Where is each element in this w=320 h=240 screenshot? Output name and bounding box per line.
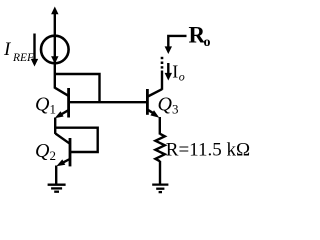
transistor Q3 bbox=[147, 89, 162, 115]
ground (left) bbox=[48, 185, 66, 192]
Q3 collector wire (solid below dashes) bbox=[161, 71, 163, 90]
Q2 collector diagonal bbox=[55, 134, 69, 144]
svg-text:o: o bbox=[204, 35, 211, 50]
Q1 emitter diagonal bbox=[61, 110, 68, 114]
Q1 collector diagonal bbox=[55, 88, 68, 96]
resistor R zigzag bbox=[155, 134, 164, 162]
Q1 base bar bbox=[67, 88, 70, 118]
svg-text:R=11.5 kΩ: R=11.5 kΩ bbox=[166, 140, 250, 161]
current source I_REF bbox=[41, 36, 69, 64]
arrow up (top of current source) bbox=[51, 7, 58, 15]
wire: Q2 collector-base tie loop bbox=[55, 128, 97, 152]
svg-text:o: o bbox=[179, 70, 185, 84]
svg-text:1: 1 bbox=[50, 102, 57, 117]
Q3 emitter arrowhead bbox=[150, 110, 159, 118]
Q3 emitter diagonal bbox=[148, 110, 154, 114]
base line Q1->Q3 bbox=[69, 101, 148, 103]
wire Q1 emitter down bbox=[54, 118, 56, 134]
I_REF arrow bbox=[33, 34, 35, 61]
arrow down inside current source bbox=[51, 56, 58, 64]
Q2 emitter arrowhead bbox=[56, 159, 65, 166]
wire through current source bbox=[54, 13, 56, 89]
wire: collector node loop of Q1 (collector-base tie) bbox=[55, 74, 100, 102]
transistor Q1 bbox=[55, 88, 69, 118]
R_o probe wire bbox=[168, 36, 186, 47]
wire Q2 emitter to ground bbox=[55, 166, 57, 185]
wire resistor to ground bbox=[159, 161, 161, 185]
wire Q3 emitter down bbox=[159, 117, 161, 135]
Q1 emitter arrowhead bbox=[55, 111, 64, 118]
Q2 base bar bbox=[69, 138, 72, 166]
svg-text:REF: REF bbox=[12, 52, 35, 64]
svg-text:Q: Q bbox=[35, 140, 50, 162]
Q3 collector wire dashed section bbox=[161, 57, 164, 69]
svg-text:Q: Q bbox=[35, 94, 50, 116]
Q3 collector diagonal bbox=[148, 89, 162, 96]
svg-text:I: I bbox=[3, 39, 12, 60]
svg-text:Q: Q bbox=[158, 94, 173, 116]
svg-text:I: I bbox=[172, 62, 178, 82]
ground (right) bbox=[152, 185, 168, 193]
svg-text:2: 2 bbox=[50, 148, 57, 163]
Q2 emitter diagonal bbox=[63, 159, 70, 163]
R_o probe arrowhead bbox=[165, 46, 172, 54]
svg-text:3: 3 bbox=[172, 102, 179, 117]
Q3 base bar bbox=[146, 89, 149, 115]
I_o arrow bbox=[167, 63, 169, 74]
transistor Q2 bbox=[55, 134, 70, 167]
